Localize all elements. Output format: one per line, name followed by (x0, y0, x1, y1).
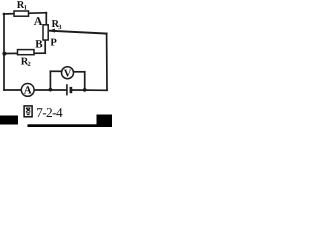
svg-text:7-2-4: 7-2-4 (36, 105, 63, 120)
svg-text:V: V (64, 68, 72, 79)
svg-text:2: 2 (28, 61, 31, 68)
svg-text:B: B (35, 39, 43, 51)
svg-text:1: 1 (24, 5, 27, 12)
svg-text:P: P (50, 37, 57, 48)
svg-text:A: A (34, 14, 43, 28)
svg-text:A: A (24, 85, 32, 97)
